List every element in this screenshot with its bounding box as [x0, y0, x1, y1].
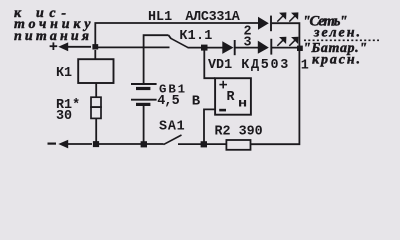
svg-text:VD1: VD1 [208, 58, 232, 73]
LED HL1 red triangle [258, 41, 269, 54]
wire: GB1 bottom to rail junction [143, 106, 145, 142]
svg-text:К1: К1 [56, 66, 72, 81]
wire: battery branch from K1.1 upper contact down through GB1 [144, 35, 169, 83]
wire: node B down and to load RH plus [204, 49, 215, 78]
LED green emission arrow 1 [277, 13, 285, 21]
battery GB1 cell2 short plate [136, 103, 150, 106]
svg-text:HL1: HL1 [148, 10, 172, 25]
switch SA1 lever [164, 135, 182, 145]
svg-text:1: 1 [301, 58, 309, 73]
wire: minus rail to SA1 [98, 143, 164, 145]
battery GB1 cell2 long plate [131, 99, 157, 101]
battery GB1 cell1 short plate [136, 87, 150, 90]
wire: K1 coil to R1 [95, 83, 97, 97]
junction dot GB1 bottom [141, 141, 147, 147]
junction dot R1 bottom [93, 141, 99, 147]
input arrow top (to power source) [58, 42, 68, 51]
input arrow bottom [58, 140, 68, 149]
svg-text:3: 3 [244, 35, 252, 50]
svg-text:4,5: 4,5 [157, 94, 179, 109]
LED HL1 green triangle [258, 17, 269, 30]
LED HL1 red cathode bar [270, 39, 272, 55]
wire: VD1 to HL1 red [235, 47, 258, 49]
wire: plus input lead to node A [66, 46, 91, 48]
wire: row2 lever to VD1 [188, 47, 223, 49]
svg-text:К1.1: К1.1 [179, 29, 212, 44]
minus polarity sign [48, 143, 57, 145]
LED red emission arrow 2 [289, 38, 297, 46]
dotted separator under "зелен." [304, 39, 379, 41]
wire: node A right to K1.1 lower contact [97, 46, 170, 48]
wire: SA1 to R2 [178, 143, 226, 145]
LED green emission arrow 2 [289, 13, 297, 21]
svg-text:КД503: КД503 [241, 58, 290, 73]
svg-text:АЛС331А: АЛС331А [185, 10, 240, 25]
wire: node A down to relay coil K1 [94, 50, 96, 60]
node B junction dot (row2 left) [201, 45, 208, 51]
junction dot row2 right pin1 [297, 46, 303, 51]
wire: K1.1 movable lever [171, 38, 188, 47]
wire: node A up and right to HL1 green row [95, 23, 258, 47]
svg-text:H: H [238, 98, 247, 110]
wire: load RH minus to bottom rail [204, 109, 215, 142]
plus sign inside RH [219, 81, 227, 89]
load RH box [215, 78, 251, 115]
resistor R2 box [226, 140, 250, 150]
svg-text:В: В [192, 93, 201, 109]
svg-text:питания: питания [14, 29, 89, 44]
LED red emission arrow 1 [277, 38, 285, 46]
node A junction dot [92, 44, 98, 49]
label H subscript of RH [238, 98, 247, 110]
svg-text:R2 390: R2 390 [215, 125, 263, 140]
junction dot RH minus rail [201, 141, 207, 147]
relay coil K1 box [78, 59, 113, 83]
plus polarity sign [50, 42, 58, 50]
resistor R1 upper half [91, 97, 101, 107]
svg-text:30: 30 [56, 109, 72, 124]
diode VD1 cathode bar [234, 40, 236, 55]
battery GB1 cell1 long plate [131, 83, 157, 85]
wire: HL1 red to right bus [272, 47, 297, 49]
diode VD1 triangle [222, 41, 233, 54]
wire: R1 to minus rail [95, 118, 97, 142]
wire: K1.1 upper contact tick [169, 35, 172, 38]
svg-text:R: R [227, 90, 236, 105]
LED HL1 green cathode bar [270, 16, 272, 32]
resistor R1 lower half [91, 107, 101, 118]
wire: minus input lead [66, 143, 92, 145]
wire: HL1 green cathode right, down the right bus, left to R2 [251, 23, 300, 144]
minus sign inside RH [219, 109, 226, 112]
svg-text:SA1: SA1 [159, 120, 186, 135]
